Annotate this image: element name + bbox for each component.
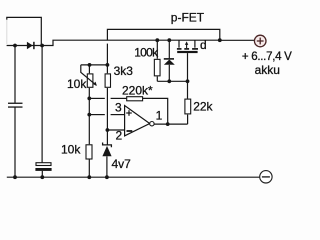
node gate <box>186 79 190 83</box>
wire feedback mid <box>111 97 127 99</box>
node rail-right <box>218 38 222 42</box>
svg-text:4v7: 4v7 <box>112 157 132 171</box>
node diode-cathode junction <box>40 44 44 48</box>
potentiometer P1 10k <box>81 65 97 87</box>
resistor R5 220k <box>127 97 143 101</box>
wire pot top <box>81 64 108 66</box>
wire pin3 right <box>111 114 125 116</box>
wire faint left vertical <box>6 18 8 44</box>
node rail-4v7 <box>105 175 109 179</box>
diode D2 <box>164 40 175 81</box>
wire feedback left <box>89 97 105 99</box>
wire gate vertical <box>187 53 189 99</box>
svg-text:10k: 10k <box>67 77 87 91</box>
wire output <box>154 123 188 125</box>
svg-text:3: 3 <box>115 101 122 115</box>
svg-text:3k3: 3k3 <box>114 64 134 78</box>
capacitor C2 electrolytic <box>35 46 51 178</box>
wire 10k to rail <box>88 159 90 177</box>
svg-text:220k*: 220k* <box>122 84 153 98</box>
svg-text:2: 2 <box>116 129 123 143</box>
op-amp U1 <box>125 106 154 136</box>
svg-text:100k: 100k <box>134 46 159 60</box>
wire divider top <box>106 44 108 65</box>
node input-cap junction <box>13 44 17 48</box>
node rail-100k <box>155 38 159 42</box>
svg-text:1: 1 <box>156 109 163 123</box>
zener D3 4v7 <box>102 143 111 178</box>
wire 22k bottom lead <box>187 115 189 125</box>
resistor R2 3k3 <box>105 65 110 87</box>
transistor Q1 p-FET <box>177 40 198 53</box>
svg-text:+ 6...7,4 V: + 6...7,4 V <box>242 51 292 63</box>
wire gate top bracket <box>107 29 219 40</box>
wire gate net horizontal <box>157 80 187 82</box>
terminal plus <box>254 35 266 47</box>
wire feedback right <box>143 98 168 124</box>
node output <box>166 122 170 126</box>
node zener-gate <box>167 79 171 83</box>
diode D1 input <box>27 42 34 49</box>
wire to plus terminal <box>220 39 255 41</box>
wire bottom minus rail <box>7 176 260 178</box>
wire input rail with step up <box>7 40 220 45</box>
node rail-diode2 <box>167 38 171 42</box>
svg-text:10k: 10k <box>61 142 81 156</box>
node pin2 <box>106 128 110 132</box>
node pin3 tap <box>87 113 91 117</box>
terminal minus <box>260 171 272 183</box>
wire 3k3 down to zener <box>106 88 108 145</box>
node rail-C2 <box>40 175 44 179</box>
resistor R3 100k <box>154 40 160 81</box>
svg-text:d: d <box>200 38 207 52</box>
capacitor C1 <box>8 46 23 178</box>
node pot top <box>88 63 92 67</box>
wire pot lead down <box>88 88 90 144</box>
node feedback tap <box>87 97 91 101</box>
node rail-C1 <box>13 175 17 179</box>
node rail-10k <box>87 175 91 179</box>
wire pin2 <box>107 129 124 131</box>
resistor R6 22k <box>185 99 191 114</box>
resistor R4 10k lower <box>86 145 92 159</box>
wire pin3 left <box>89 114 105 116</box>
wire top-left loop <box>7 17 42 45</box>
svg-text:akku: akku <box>255 63 280 77</box>
svg-text:p-FET: p-FET <box>171 11 205 25</box>
node divider top <box>106 63 110 67</box>
svg-text:22k: 22k <box>193 100 213 114</box>
